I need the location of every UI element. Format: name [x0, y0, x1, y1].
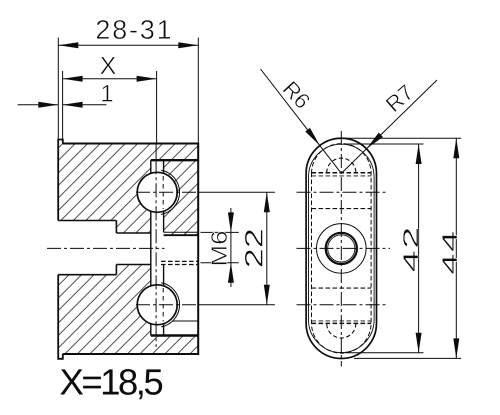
dimension M6 extension lines [201, 232, 239, 262]
pocket hidden horizontals upper [312, 172, 372, 174]
dimension 1 line and tails [18, 104, 107, 106]
R7 leader [341, 80, 437, 173]
central axis centerline [47, 247, 165, 249]
dimension 22 text [245, 230, 263, 266]
dimension 1 text [102, 85, 112, 102]
dimension 42 line [418, 144, 420, 353]
result text X=18,5 [60, 369, 162, 399]
central hole counterbore circle [317, 224, 367, 274]
upper cross hole outline [137, 172, 177, 212]
slot channel (white) [151, 160, 164, 335]
stem hole lines [116, 233, 150, 265]
hidden thread lines bottom right (dashed) [161, 261, 198, 264]
right view outer stadium R7 [306, 138, 376, 358]
central hole horizontal centerline [297, 247, 391, 249]
R7 text [385, 84, 414, 112]
slot bottom thick line [151, 334, 198, 336]
thread minor line top right (thick) [164, 234, 199, 236]
upper hole outer thin arc [161, 170, 179, 214]
dimension 22 line [266, 192, 268, 304]
dimension 44 extension lines [344, 138, 462, 358]
lower hole outer thin arc [161, 283, 179, 327]
pocket hidden horizontals lower [312, 320, 372, 322]
hidden slot dashes through circles [162, 176, 164, 322]
slot top thick line [151, 159, 198, 161]
right side pocket zone (white) [164, 235, 199, 335]
boss counterbore hole (white) [58, 221, 116, 275]
dimension 28-31 text [97, 20, 171, 39]
dimension 44 text [442, 232, 457, 274]
central hole thread major circle [326, 233, 357, 264]
dimension X line [63, 78, 157, 80]
stem hole M6 left part (white) [116, 233, 150, 265]
R6 leader [261, 69, 342, 173]
thread sliver hatch top right [164, 232, 199, 235]
boss hole outline [58, 221, 116, 275]
dimension 28-31 extension lines [58, 38, 198, 144]
R6 text [282, 81, 311, 110]
upper M6 hidden semicircle [327, 158, 356, 173]
left view hatched section field [58, 140, 198, 355]
left face edge with top/bottom notch steps and boss opening gap [58, 140, 63, 359]
lower M6 hidden semicircle [327, 323, 356, 338]
lower cross hole outline [137, 285, 177, 325]
upper hole centerline leader [136, 191, 200, 193]
body outline top right bottom [63, 144, 198, 355]
dimension 28-31 line [58, 44, 198, 46]
upper hole horizontal centerline [297, 191, 388, 193]
slot vertical centerline [155, 144, 157, 161]
slot right line segments [163, 160, 165, 335]
lower hole centerline leader [136, 304, 200, 306]
dimension 42 extension lines [345, 144, 424, 353]
upper cross hole circle (white fill) [137, 172, 177, 212]
lower cross hole circle (white fill) [137, 285, 177, 325]
lower hole horizontal centerline [297, 304, 388, 306]
right view body stadium (solid thin) [309, 144, 375, 352]
dimension M6 line [230, 208, 232, 287]
dimension 42 text [403, 229, 418, 272]
dimension X extension lines [63, 71, 157, 144]
pocket edge line right [173, 320, 199, 322]
pocket hidden horizontals mid [312, 209, 372, 289]
hidden R6 pocket stadium (dashed) [312, 144, 372, 353]
dimension X text [100, 57, 116, 74]
slot left line segments [150, 160, 152, 335]
thread major line top right [164, 231, 199, 233]
right view vertical centerline [340, 131, 342, 367]
central hole minor circle (thick) [328, 235, 355, 262]
dimension M6 text [211, 232, 227, 265]
dimension 44 line [455, 138, 457, 358]
